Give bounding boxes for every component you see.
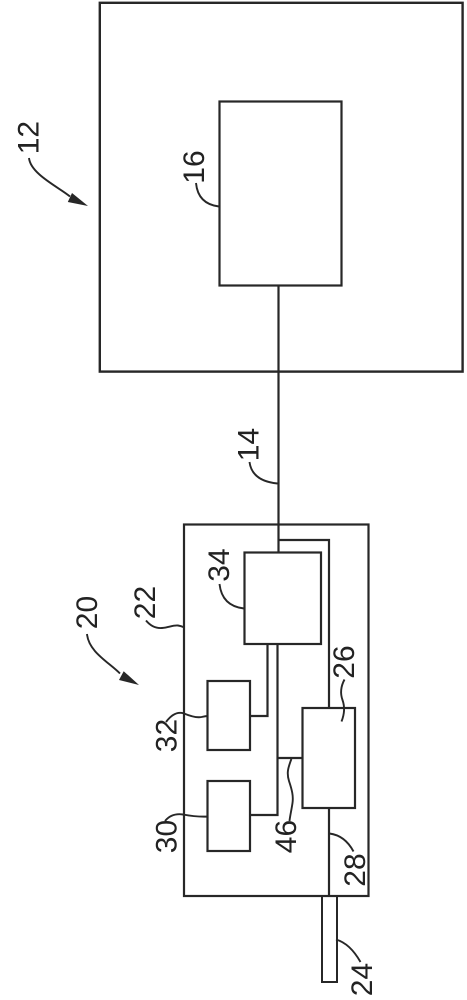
svg-text:30: 30 [151, 820, 184, 853]
svg-text:26: 26 [328, 645, 361, 678]
svg-text:22: 22 [129, 586, 162, 619]
svg-text:46: 46 [270, 820, 303, 853]
svg-text:16: 16 [178, 150, 211, 183]
svg-text:14: 14 [233, 428, 266, 461]
svg-text:24: 24 [346, 963, 379, 996]
svg-text:34: 34 [203, 548, 236, 581]
svg-text:32: 32 [151, 719, 184, 752]
svg-text:12: 12 [13, 121, 46, 154]
svg-text:20: 20 [71, 596, 104, 629]
svg-text:28: 28 [339, 853, 372, 886]
